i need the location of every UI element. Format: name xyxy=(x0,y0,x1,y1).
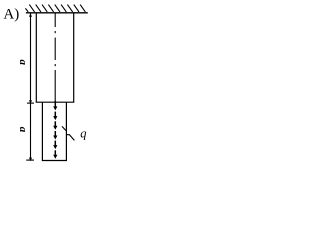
upper bar right edge xyxy=(73,13,75,102)
dimension tick at bottom xyxy=(26,159,34,161)
upper bar left edge xyxy=(35,13,37,102)
wall hatch marks xyxy=(25,5,85,12)
svg-text:a: a xyxy=(17,59,29,65)
distributed load q arrow shafts xyxy=(54,101,56,157)
lower bar right edge xyxy=(65,102,67,160)
dimension line xyxy=(30,13,32,160)
leader line outer part xyxy=(66,135,74,141)
svg-text:a: a xyxy=(17,127,29,133)
fixed support ceiling line xyxy=(26,12,88,14)
leader line to q xyxy=(62,126,66,131)
step shoulder line xyxy=(36,101,75,103)
dimension arrowhead bottom (down) xyxy=(29,158,32,162)
dimension tick at step xyxy=(27,102,34,104)
svg-text:A): A) xyxy=(3,6,19,22)
lower bar left edge xyxy=(41,102,43,160)
svg-text:q: q xyxy=(80,127,86,141)
bar centerline dash-dot xyxy=(54,13,56,102)
distributed load arrowheads xyxy=(53,106,57,158)
dimension arrowhead top (up) xyxy=(29,13,32,17)
bar bottom end line xyxy=(42,160,67,162)
dimension arrowhead at step (down) xyxy=(29,100,32,104)
